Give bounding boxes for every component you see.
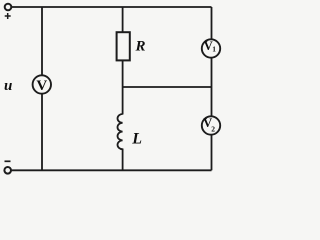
wire: resistor bottom to coil top xyxy=(122,61,124,115)
svg-text:L: L xyxy=(131,130,142,147)
terminal - (bottom-left) xyxy=(4,167,11,174)
voltmeter V (left) xyxy=(33,75,51,93)
wire: top rail xyxy=(11,6,211,8)
wire: middle branch top (to resistor) xyxy=(122,7,124,32)
svg-text:u: u xyxy=(4,78,12,94)
wire: bottom rail xyxy=(11,169,212,171)
wire: middle horizontal link xyxy=(123,86,212,88)
inductor L coil xyxy=(118,114,123,149)
voltmeter V1 (right top) xyxy=(202,39,220,57)
wire: right branch between V1 and V2 xyxy=(211,58,213,117)
svg-text:2: 2 xyxy=(211,125,215,134)
svg-text:1: 1 xyxy=(212,45,216,54)
terminal + (top-left) xyxy=(5,4,12,11)
minus sign xyxy=(5,160,11,162)
plus sign xyxy=(5,13,11,19)
svg-text:R: R xyxy=(135,39,146,55)
wire: left V branch lower xyxy=(41,94,43,171)
resistor R xyxy=(117,32,130,60)
svg-text:V: V xyxy=(36,78,47,94)
wire: left V branch upper xyxy=(41,7,43,75)
voltmeter V2 (right bottom) xyxy=(202,116,220,134)
wire: right branch bottom xyxy=(211,135,213,171)
wire: coil bottom to bottom rail xyxy=(122,149,124,171)
wire: right branch top xyxy=(211,7,213,39)
